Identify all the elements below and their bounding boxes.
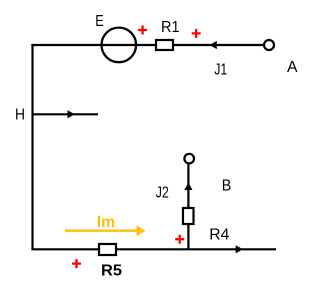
svg-text:E: E <box>95 13 104 30</box>
plus polarity right of R1 <box>192 29 201 38</box>
svg-text:R4: R4 <box>209 227 229 244</box>
svg-text:J2: J2 <box>156 184 169 201</box>
plus polarity of E <box>138 26 147 35</box>
wire: branch B vertical <box>187 164 189 249</box>
wire: H stub <box>33 113 99 115</box>
resistor R4 <box>183 208 194 224</box>
svg-text:R1: R1 <box>161 19 180 36</box>
svg-text:A: A <box>287 59 298 76</box>
svg-text:H: H <box>15 107 25 124</box>
plus polarity left of R4 <box>175 235 184 244</box>
arrow H (pointing right) <box>68 110 75 118</box>
wire: bottom horizontal <box>31 248 276 250</box>
plus polarity left of R5 <box>72 259 81 268</box>
arrow J2 (current, pointing up) <box>184 183 192 190</box>
resistor R1 <box>156 40 173 50</box>
arrow Im (mesh current, orange) <box>65 229 138 231</box>
svg-text:B: B <box>222 178 232 195</box>
wire: top horizontal <box>31 44 264 46</box>
wire: left vertical <box>31 44 33 250</box>
source E <box>102 28 137 63</box>
resistor R5 <box>99 244 116 255</box>
terminal A <box>264 40 274 50</box>
svg-text:Im: Im <box>97 214 116 231</box>
arrow J1 (current, pointing left) <box>210 41 217 49</box>
svg-text:R5: R5 <box>101 263 122 280</box>
arrow on bottom wire (pointing right) <box>236 245 243 253</box>
svg-text:J1: J1 <box>214 62 227 79</box>
terminal B <box>184 154 194 164</box>
